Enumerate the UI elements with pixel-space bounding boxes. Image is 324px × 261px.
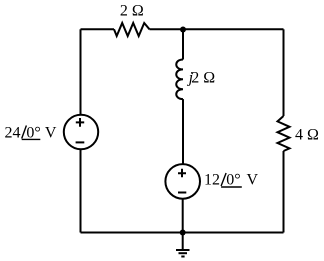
svg-text:12: 12	[204, 172, 220, 189]
svg-text:0°: 0°	[226, 172, 240, 189]
svg-text:V: V	[45, 124, 57, 141]
svg-text:2 Ω: 2 Ω	[120, 3, 144, 20]
svg-text:V: V	[247, 172, 259, 189]
svg-text:0°: 0°	[26, 124, 40, 141]
svg-text:4 Ω: 4 Ω	[295, 126, 319, 143]
svg-text:2 Ω: 2 Ω	[191, 70, 215, 87]
svg-text:24: 24	[5, 124, 21, 141]
